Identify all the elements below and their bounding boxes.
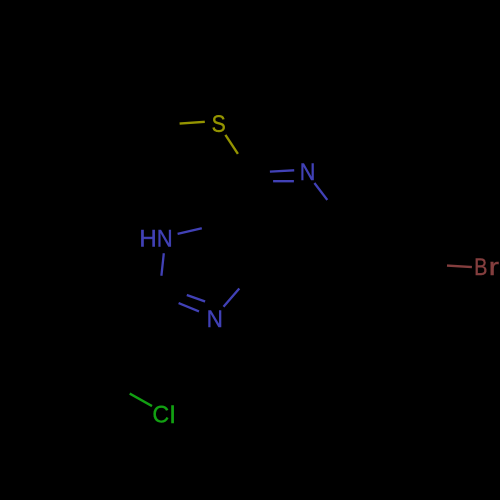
svg-text:H: H bbox=[139, 226, 156, 253]
svg-text:C: C bbox=[152, 402, 169, 428]
wire: N1 to C7a bond (nitrogen half) bbox=[178, 228, 202, 234]
wire: N3 to C3a bond (nitrogen half) bbox=[224, 289, 240, 307]
svg-text:r: r bbox=[489, 254, 499, 281]
wire: N1 to C2 bond (nitrogen half) bbox=[161, 253, 163, 275]
wire: C6 to Br bond (bromine-colored half) bbox=[447, 266, 472, 268]
wire: N5 to C6 bond (nitrogen half) bbox=[314, 183, 327, 200]
wire: C4=N5 double bond inner line (nitrogen half) bbox=[273, 180, 294, 182]
svg-text:S: S bbox=[212, 111, 226, 138]
wire: methyl CH3 to S bond (sulfur-colored half) bbox=[180, 122, 205, 124]
svg-text:N: N bbox=[300, 158, 316, 185]
svg-text:N: N bbox=[157, 225, 173, 252]
wire: C2=N3 double bond inner line (nitrogen half) bbox=[187, 295, 205, 302]
svg-text:B: B bbox=[474, 253, 487, 280]
svg-text:N: N bbox=[207, 305, 223, 332]
wire: S to C4 bond (sulfur-colored half) bbox=[225, 135, 238, 154]
wire: C2=N3 double bond main line (nitrogen half) bbox=[179, 303, 199, 311]
svg-text:l: l bbox=[170, 402, 176, 428]
wire: C4=N5 double bond main line (nitrogen half) bbox=[270, 170, 294, 171]
wire: phenyl C to Cl bond (chlorine-colored half) bbox=[130, 394, 152, 407]
